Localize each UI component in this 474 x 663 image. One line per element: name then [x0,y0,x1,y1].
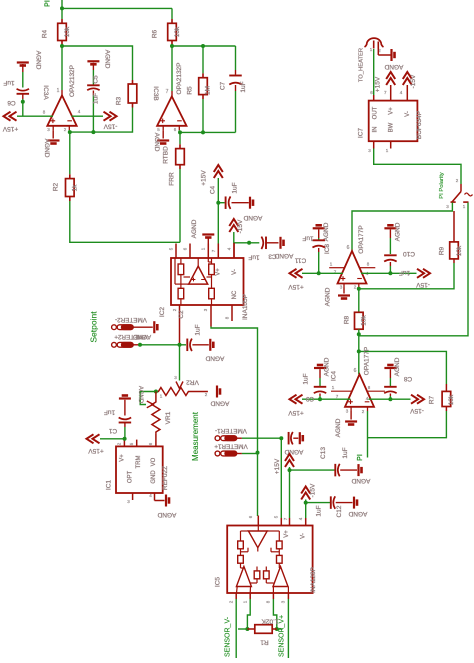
node C10 junction [388,271,392,275]
svg-text:1M: 1M [205,86,212,95]
svg-text:INA128P: INA128P [310,567,317,593]
node VR junction [154,390,158,394]
svg-text:Setpoint: Setpoint [89,311,99,343]
supply -15V arrow IC2 pin4 [229,219,238,232]
svg-text:6: 6 [354,368,357,374]
connector TO_HEATER [365,38,384,47]
op-amp IC3A [61,90,63,95]
svg-text:VMETER1+: VMETER1+ [214,443,248,450]
ground AGND at IC3B + input [162,130,164,138]
wire IC5 pin5 [280,438,282,518]
svg-text:R1: R1 [260,639,269,646]
wire IC3B output node to R5 and C7 [172,45,236,47]
capacitor at IC5 pin5 with AGND [288,432,290,445]
connector VMETER2+ [112,342,134,347]
svg-text:BW: BW [389,122,395,132]
potentiometer VR1 [147,401,153,408]
svg-text:V-: V- [232,269,238,275]
capacitor C10 bypass with AGND [384,225,396,228]
svg-text:AGND: AGND [153,133,160,152]
svg-text:C2: C2 [178,310,185,319]
capacitor C7 [235,46,237,70]
svg-text:C10: C10 [403,250,415,257]
node R8 bottom junction [358,329,360,334]
svg-text:AGND: AGND [323,222,330,241]
svg-text:REF02Z: REF02Z [162,466,169,490]
svg-text:AGND: AGND [274,252,293,259]
svg-text:FRR: FRR [169,172,176,186]
resistor R4 [61,19,63,23]
ground AGND at IC4 + input [350,411,352,420]
svg-text:BUF634P: BUF634P [416,111,423,139]
svg-text:1uF: 1uF [240,81,247,92]
svg-text:C6: C6 [7,99,16,106]
IC IC2 INA105P box [175,244,177,259]
svg-text:AGND: AGND [243,214,262,221]
svg-text:R5: R5 [187,86,194,95]
svg-text:IN: IN [373,127,379,133]
wire feedback to R3 [62,46,133,80]
wire IC4 output feedback to R7 [360,351,447,384]
supply +15V arrow IC2 [214,165,223,178]
svg-text:AGND: AGND [395,222,402,241]
supply -15V arrow IC8 [417,269,430,278]
ground AGND at IC1 GND pin4 [154,493,156,501]
svg-text:V+: V+ [389,107,395,115]
svg-text:10k: 10k [174,26,181,37]
connector VMETER1+ [215,451,237,456]
connector VMETER2- [112,325,134,330]
wire PI net vertical into R4 [61,0,63,19]
svg-text:1uF: 1uF [104,409,115,416]
ground AGND at IC2 pin1 [202,235,214,238]
svg-text:OPA177P: OPA177P [364,347,371,375]
wire IC4 V- to -15V [369,398,411,400]
svg-text:6: 6 [347,245,350,251]
svg-text:-15V: -15V [310,483,317,497]
svg-text:+15V: +15V [201,170,208,186]
node VMETER1+ junction [256,451,260,455]
wire +15V to IC4 V+ [302,398,351,400]
supply +15V arrow IC5 [285,454,294,467]
svg-text:-15V: -15V [409,407,423,414]
supply -15V arrow IC7 [403,72,412,85]
svg-text:VO: VO [151,457,157,466]
wire R4 bottom to IC3A output [61,46,63,90]
svg-text:IC3A: IC3A [42,85,49,100]
node junction R4 bottom [60,44,64,48]
svg-text:VR1: VR1 [165,411,172,424]
node C4 junction [216,201,220,205]
svg-text:SENSOR_V+: SENSOR_V+ [279,615,286,657]
resistor R2 [69,174,71,178]
resistor RTBD (FRR) [179,132,181,144]
wire switch throw1 down right edge to R8 node [359,203,468,336]
svg-text:1uF: 1uF [93,93,100,104]
svg-text:SENSOR_V-: SENSOR_V- [225,616,232,657]
svg-text:10k: 10k [448,394,455,405]
svg-text:1uF: 1uF [303,373,310,384]
node RTBD junction on rail [178,130,182,134]
wire switch throw3 to IC8 output line [352,203,452,252]
capacitor C11 bypass with AGND [313,225,325,228]
svg-text:C7: C7 [220,81,227,90]
svg-text:1: 1 [57,88,60,94]
connector VMETER1- [215,436,237,441]
wire +15V down to IC5 pin7 [289,467,291,518]
svg-text:OPA177P: OPA177P [358,225,365,253]
svg-text:IC4: IC4 [331,371,338,382]
capacitor C3 with AGND [265,237,267,250]
svg-text:PI: PI [45,0,52,7]
node R2 branch junction [68,130,72,134]
svg-text:R2: R2 [53,182,60,191]
svg-text:AGND: AGND [43,139,50,158]
ground AGND at VR2 pin2 [217,386,220,398]
svg-text:1.02K: 1.02K [261,618,279,625]
svg-text:C11: C11 [294,257,306,264]
svg-text:R9: R9 [439,246,446,255]
svg-text:AGND: AGND [137,386,143,404]
resistor R5 [202,46,204,73]
svg-text:IC5: IC5 [215,577,222,588]
supply +15V arrow IC8 [290,269,303,278]
pin stubs IC5 bottom [235,593,237,599]
internal amplifier IC5 [248,531,267,548]
node C13 junction [288,468,292,472]
internal resistors IC5 [238,541,244,549]
svg-text:-15V: -15V [237,219,244,233]
svg-text:R8: R8 [344,315,351,324]
supply +15V arrow IC1 [87,434,100,443]
capacitor C9 bypass with AGND [314,365,326,368]
wire SENSOR_V+ from IC5 pin3 [287,599,289,658]
wire R2 to IC2 pin5 [70,201,180,242]
svg-text:C8: C8 [403,375,412,382]
svg-text:+15V: +15V [288,283,304,290]
svg-text:+15V: +15V [88,447,104,454]
wire -15V to IC3A [72,115,104,117]
op-amp IC8 OPA177P [338,251,367,284]
svg-text:IC2: IC2 [159,307,166,318]
svg-text:C9: C9 [305,395,314,402]
svg-text:-15V: -15V [103,123,117,130]
svg-text:NC: NC [232,290,238,299]
resistor R1 gain 1.02K [245,627,249,631]
svg-text:1uF: 1uF [302,235,313,242]
supply -15V arrow IC5 [301,487,310,500]
node PI junction at R4 top [60,6,64,10]
svg-text:IC7: IC7 [358,128,365,139]
svg-text:+15V: +15V [274,458,281,474]
svg-text:AGND: AGND [335,418,342,437]
wire +15V to IC1 V+ [100,438,124,440]
capacitor C2 with AGND [186,339,188,352]
svg-text:AGND: AGND [132,333,151,340]
svg-text:OPA2132P: OPA2132P [176,62,183,94]
svg-text:AGND: AGND [284,448,303,455]
svg-text:IC8: IC8 [324,244,331,255]
node R5 top junction [201,44,205,48]
node C6 junction [21,100,25,104]
internal resistors IC2 [178,264,184,275]
svg-text:IC1: IC1 [106,480,113,491]
wire R8 node to IC4 output [358,334,360,374]
capacitor C1 with AGND [119,396,131,399]
svg-text:C1: C1 [108,427,117,434]
svg-text:1uF: 1uF [232,182,239,193]
svg-text:AGND: AGND [157,511,176,518]
svg-text:C13: C13 [320,447,327,459]
op-amp IC4 OPA177P [345,374,374,407]
wire +15V to IC2 pin7 [217,178,219,244]
capacitor C6 with AGND [17,63,29,66]
wire VR1 bottom to IC1 VO [155,434,157,447]
svg-text:1uF: 1uF [195,324,202,335]
svg-text:AGND: AGND [384,63,403,70]
svg-text:AGND: AGND [205,355,224,362]
supply -15V arrow IC4 [411,395,424,404]
svg-text:10k: 10k [456,245,463,256]
node C5 to rail junction [91,130,95,134]
svg-text:C12: C12 [336,505,343,517]
resistor R3 [132,80,134,84]
resistor R6 [171,19,173,23]
svg-text:AGND: AGND [35,51,42,70]
node C12 junction [304,501,308,505]
capacitor C12 with AGND [306,502,330,504]
wire -15V to IC2 pin4 and C3 [234,232,259,243]
wire R3 bottom to IC3A inverting rail [70,108,133,133]
svg-text:AGND: AGND [324,357,331,376]
pin stubs IC4 inputs [350,407,352,411]
internal wiring IC5 [257,526,259,532]
svg-text:-15V: -15V [415,281,429,288]
svg-text:+15V: +15V [375,76,382,92]
wire VR1 wiper to VR2 [140,392,156,405]
svg-text:AGND: AGND [191,219,198,238]
svg-text:R7: R7 [429,395,436,404]
ground AGND at TO_HEATER pin2 [377,48,379,55]
svg-text:PI: PI [357,454,364,461]
svg-text:1uF: 1uF [3,79,14,86]
trim pin ticks IC4 [331,390,352,392]
svg-text:GND: GND [151,470,157,484]
svg-text:1uF: 1uF [316,505,323,516]
svg-text:C4: C4 [210,185,217,194]
svg-text:V+: V+ [216,268,222,276]
supply +15V arrow IC4 [290,395,303,404]
wire IC5 pin1 to R1 [247,599,250,629]
svg-text:R4: R4 [42,29,49,38]
svg-text:AGND: AGND [325,287,332,306]
wire RTBD to IC2 pin 5 line [179,169,181,242]
pin stub IC1 pin3 [132,493,134,500]
ground AGND at VMETER2- [134,326,153,328]
supply +15V arrow IC7 [386,72,395,85]
node IC8 inverting junction [357,287,361,291]
svg-text:RTBD: RTBD [163,146,170,164]
svg-text:OPT: OPT [128,471,134,484]
svg-text:AGND: AGND [104,50,111,69]
wire R6 bottom to IC3B output [171,46,173,91]
wire R7 bottom to IC4 inverting node [445,407,447,412]
internal wiring IC2 [174,258,176,284]
pin stubs IC8 inputs [343,284,345,288]
capacitor C13 with AGND [290,469,335,471]
wire TO_HEATER pin1 to IC7 OUT [373,49,375,95]
svg-text:INA105P: INA105P [242,294,249,320]
trim pin ticks IC8 [329,267,344,269]
node C11 junction [317,271,321,275]
svg-text:1uF: 1uF [399,269,410,276]
resistor R8 [358,289,360,313]
op-amp IC3B [171,91,173,96]
svg-text:TO_HEATER: TO_HEATER [359,48,365,82]
svg-text:TRM: TRM [136,456,142,469]
wire SENSOR_V- from IC5 pin2 [235,599,237,658]
wire IC3A inv input to rail [68,130,70,132]
wire VMETER1+ to output line [242,453,258,455]
wire IC7 IN to switch common [374,149,461,185]
svg-text:V-: V- [405,111,411,117]
node VMETER1- cap junction [279,436,283,440]
svg-text:AGND: AGND [394,357,401,376]
capacitor C4 with AGND [218,202,224,204]
svg-text:V+: V+ [284,530,290,538]
pin stubs IC7 bottom [373,141,375,148]
node C1 junction [123,437,127,441]
ground AGND at IC3A + input [52,130,54,138]
wire VMETER1- to IC5 pin5 [242,437,281,439]
svg-text:VMETER1-: VMETER1- [215,427,247,434]
svg-text:1uF: 1uF [342,447,349,458]
capacitor C8 bypass with AGND [384,365,396,368]
pin stubs IC3A inputs [52,126,54,130]
node C8 junction [388,397,392,401]
wire IC8 V- to -15V [361,272,417,274]
wire PI net horizontal R4-R6 [62,7,172,9]
svg-text:OUT: OUT [373,106,379,119]
svg-text:VMETER2-: VMETER2- [115,316,147,323]
svg-text:AGND: AGND [210,400,229,407]
svg-text:V-: V- [301,533,307,539]
svg-text:R3: R3 [116,96,123,105]
svg-text:V+: V+ [120,454,126,462]
svg-text:PI Polarity: PI Polarity [439,172,445,199]
svg-text:R6: R6 [152,29,159,38]
op-amp symbol inside IC2 [189,266,208,284]
svg-text:OPA2132P: OPA2132P [69,65,76,97]
wire R9 bottom to IC8 inv node [453,259,455,263]
ground AGND at IC8 + input [343,288,345,294]
svg-text:+15V: +15V [2,125,18,132]
wire IC4 inverting input down to PI net [367,411,369,458]
node R5 bottom junction [201,130,205,134]
svg-text:AGND: AGND [351,477,370,484]
svg-text:1k: 1k [72,184,79,192]
svg-text:VR2: VR2 [186,379,199,386]
svg-text:-15V: -15V [410,74,417,88]
wire IC5 pin8 to R1 [273,599,276,629]
svg-text:IC3B: IC3B [152,86,159,100]
svg-text:AGND: AGND [348,510,367,517]
svg-text:1uF: 1uF [248,254,259,261]
svg-text:C5: C5 [93,75,100,84]
wire inverting rail down to R2 [69,132,71,174]
wire +15V to IC8 V+ [302,272,343,274]
IC IC1 REF02Z box [136,440,138,447]
svg-text:+15V: +15V [288,409,304,416]
wire +15V to IC3A [17,115,53,117]
supply +15V arrow IC3A pin8 [4,112,17,121]
pin stubs IC2 bottom [179,305,181,345]
svg-text:Measurement: Measurement [191,411,200,461]
pin stubs IC3B inputs [162,126,164,130]
wire IC3B inverting rail [179,130,235,132]
svg-text:10k: 10k [64,26,71,37]
IC IC5 INA128P box [257,516,259,526]
node IC4 output feedback junction [357,349,361,353]
wire output line down to IC5 pin6 [257,453,259,516]
node C9 junction [318,397,322,401]
capacitor C5 with AGND [87,61,99,64]
resistor R9 [453,211,455,242]
wire -15V down to IC5 pin4 [305,500,307,519]
svg-text:10k: 10k [361,315,368,326]
svg-text:7: 7 [166,89,169,95]
wire VMETER2+ to C2 and VR2 wiper [138,343,142,347]
resistor R7 [445,384,447,391]
node junction R6 bottom [170,44,174,48]
node C3 junction [247,241,251,245]
wire IC2 pin3 to IC5 output line [211,327,258,453]
supply -15V arrow IC3A pin4 [104,112,117,121]
